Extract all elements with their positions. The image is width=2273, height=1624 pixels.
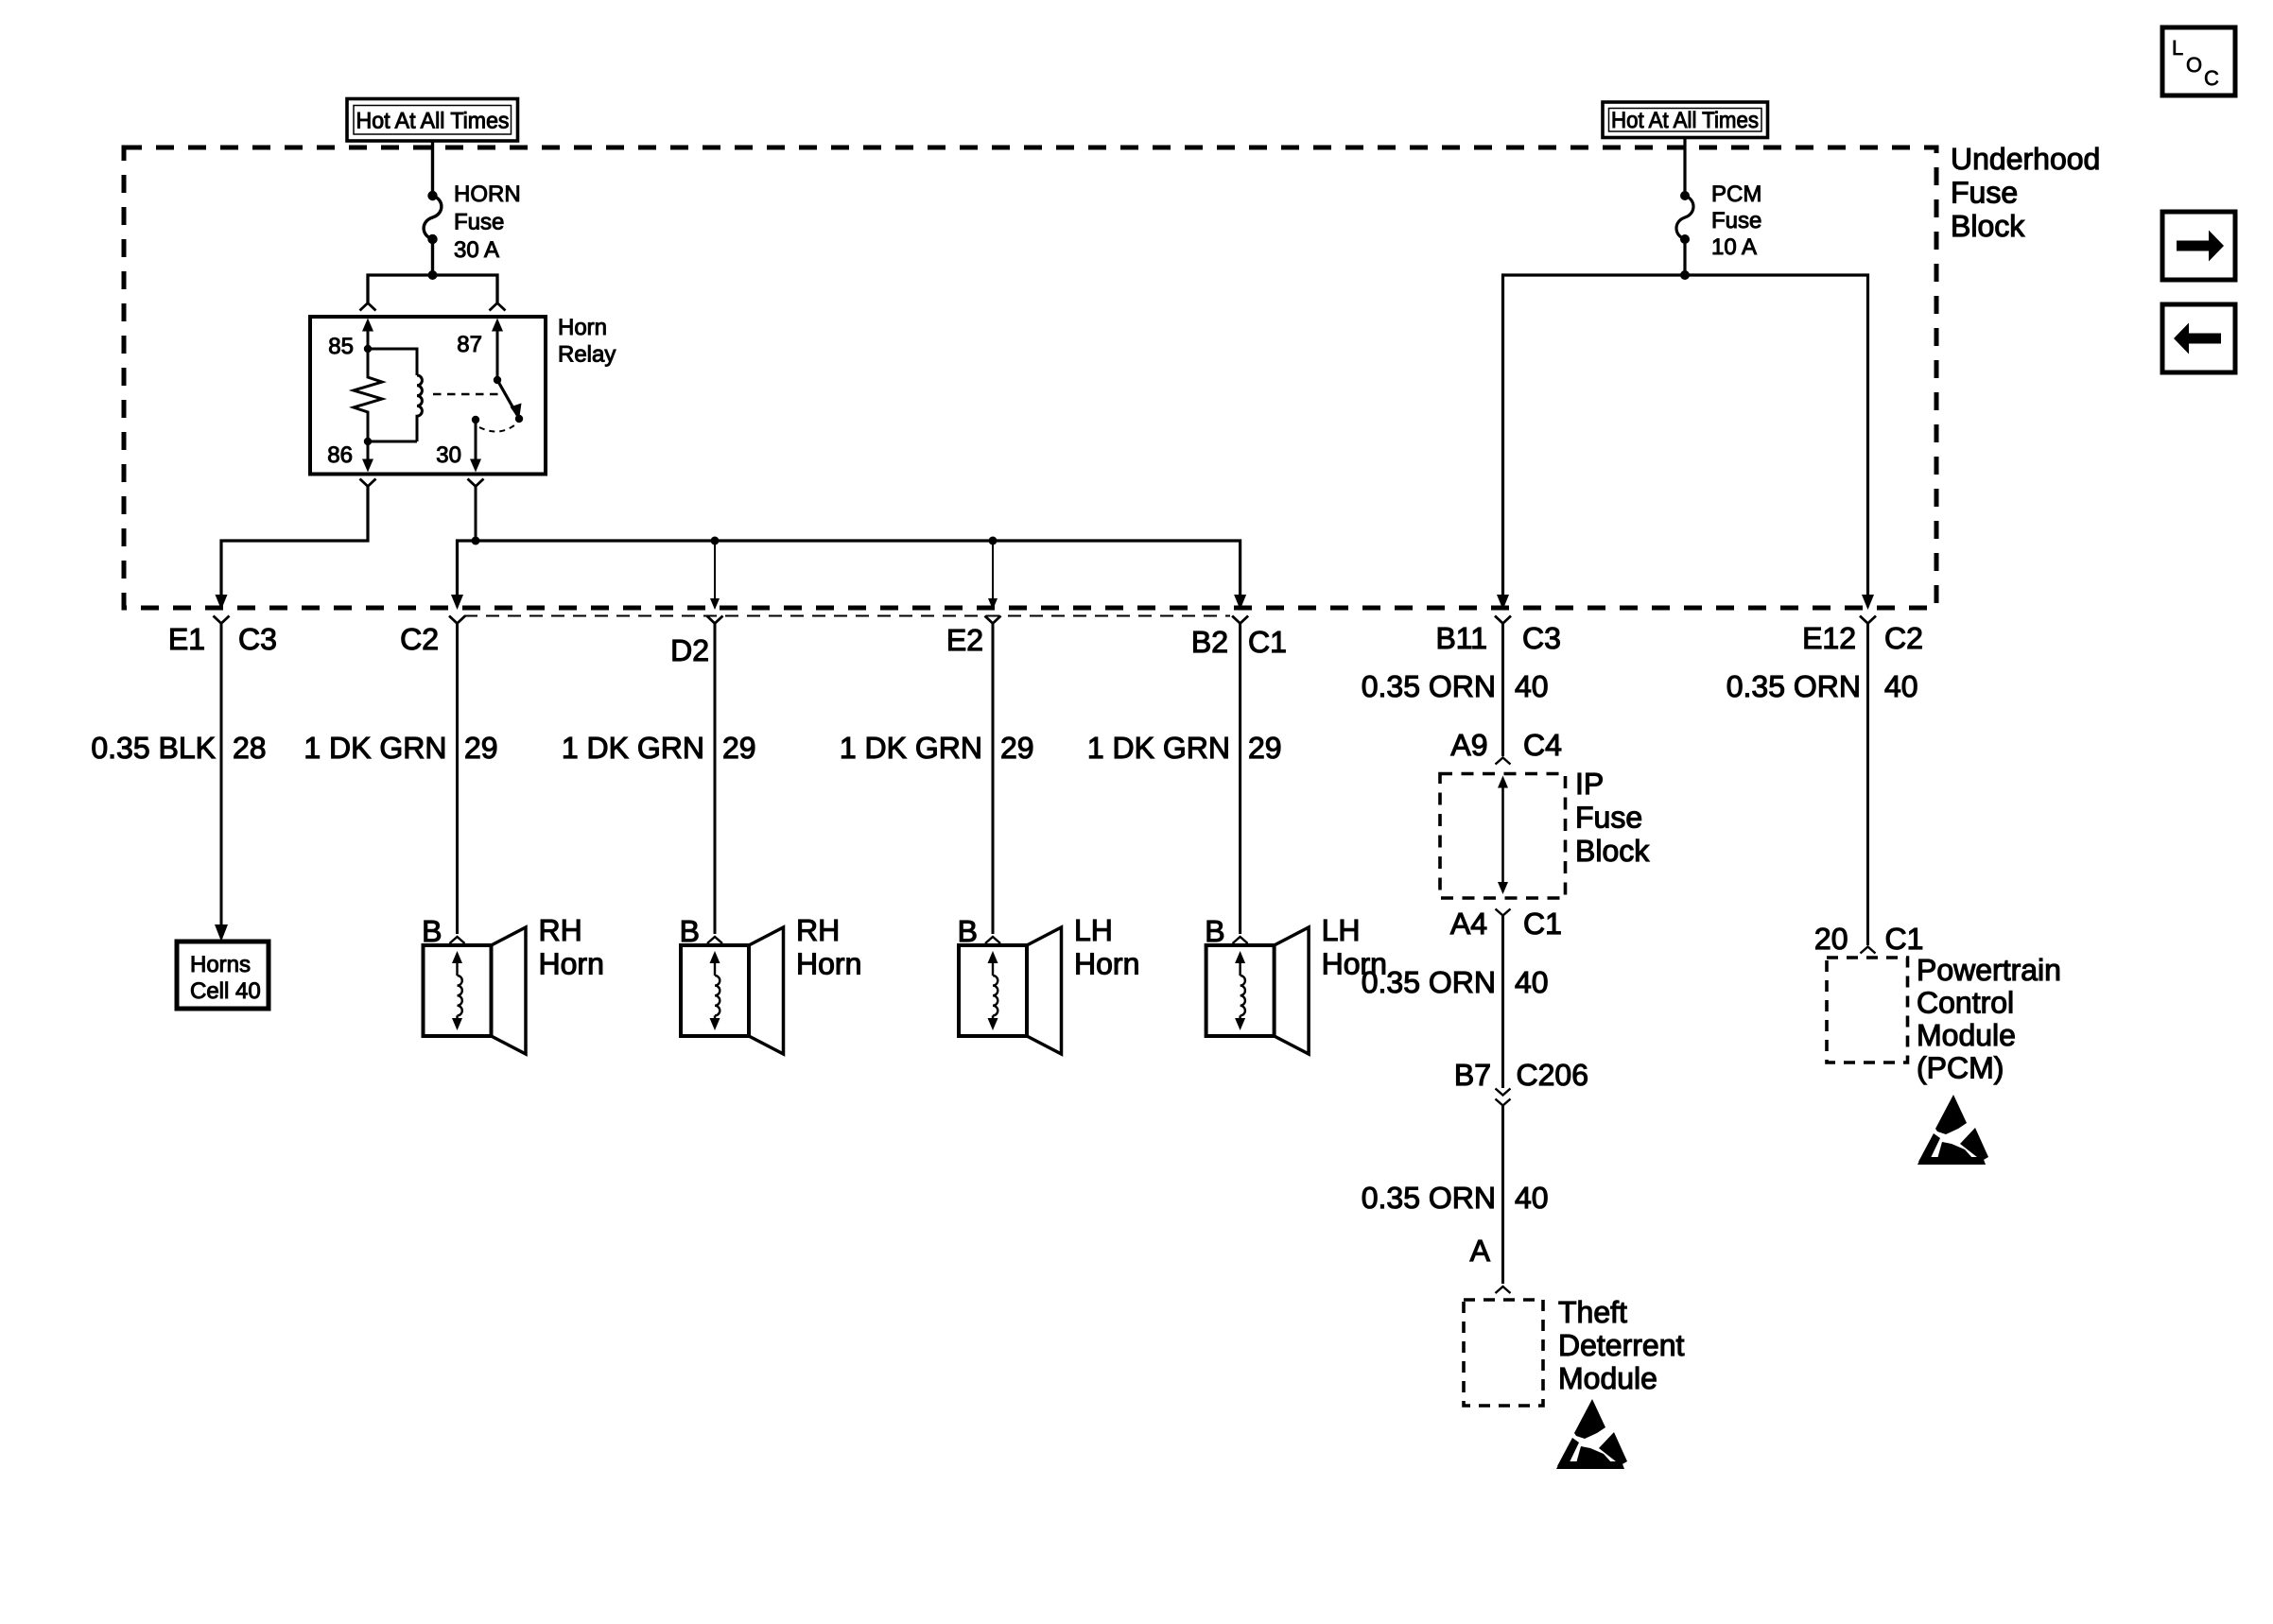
wire: right battery feed down to PCM fuse — [1683, 138, 1686, 197]
in-line connector C206 (chevron pair) — [1496, 1089, 1511, 1096]
node: pin 30 contact — [472, 416, 479, 423]
svg-text:PCM: PCM — [1711, 181, 1761, 207]
node: pin 85 junction — [364, 345, 372, 353]
svg-text:B: B — [422, 914, 442, 948]
arrow: into Horns Cell 40 — [215, 924, 228, 942]
svg-text:Horn: Horn — [796, 947, 861, 981]
svg-text:0.35 ORN: 0.35 ORN — [1362, 965, 1496, 999]
svg-text:86: 86 — [327, 442, 353, 468]
connector chevron at relay pin 85 — [360, 303, 376, 311]
resistor (relay coil suppression) — [354, 349, 382, 441]
svg-text:B: B — [1205, 914, 1224, 948]
relay pin 87 lead (arrow up) — [496, 329, 499, 380]
svg-text:Block: Block — [1951, 209, 2025, 243]
wire: pin 30 down to bus — [475, 487, 477, 542]
svg-text:Fuse: Fuse — [1951, 176, 2018, 210]
power label box: Hot At All Times (left) — [347, 99, 518, 142]
relay pin 85 lead (arrow up) — [367, 329, 370, 349]
svg-text:Theft: Theft — [1558, 1295, 1627, 1329]
svg-text:IP: IP — [1575, 767, 1604, 801]
svg-text:1 DK GRN: 1 DK GRN — [304, 731, 446, 765]
svg-text:Horn: Horn — [558, 315, 607, 340]
connector chevron E12/C2 — [1860, 616, 1876, 624]
node: bus tap D2 — [711, 537, 720, 545]
wire: coil branch top — [368, 349, 417, 375]
fuse PCM 10 A (element) — [1680, 191, 1690, 200]
svg-text:RH: RH — [539, 913, 582, 947]
wire through IP fuse block (double arrow) — [1501, 785, 1504, 885]
connector chevron B at RH Horn 2 — [707, 937, 722, 943]
svg-text:29: 29 — [1248, 731, 1282, 765]
svg-text:C2: C2 — [400, 622, 439, 656]
svg-text:40: 40 — [1884, 669, 1918, 703]
svg-text:Relay: Relay — [558, 342, 616, 368]
svg-text:LH: LH — [1322, 913, 1361, 947]
svg-text:HORN: HORN — [454, 181, 521, 207]
svg-text:E1: E1 — [168, 622, 205, 656]
svg-text:1 DK GRN: 1 DK GRN — [1087, 731, 1230, 765]
connector chevron E2 — [985, 616, 1001, 624]
wire: B11 to IP fuse block — [1501, 624, 1504, 757]
connector chevron at relay pin 87 — [490, 303, 506, 311]
node: branch junction below PCM fuse — [1680, 270, 1690, 280]
wire: E12 to PCM — [1866, 624, 1869, 946]
arrow: D2 wire at block boundary — [710, 598, 720, 610]
connector chevron A9/C4 — [1496, 758, 1511, 765]
wire: pin 86 to E1 drop — [221, 487, 368, 596]
svg-text:B7: B7 — [1454, 1058, 1491, 1092]
reference box: Horns Cell 40 — [177, 942, 269, 1009]
wire: C206 to theft deterrent module — [1501, 1106, 1504, 1285]
svg-text:B11: B11 — [1435, 621, 1487, 655]
connector chevron B at RH Horn 1 — [450, 937, 465, 943]
connector chevron B at LH Horn 2 — [1233, 937, 1248, 943]
wire: coil branch bottom — [368, 441, 417, 443]
arrow: B2 wire at block boundary — [1234, 595, 1246, 610]
svg-text:RH: RH — [796, 913, 840, 947]
dashed arc: switch throw — [479, 425, 514, 432]
node: bus tap E2 — [989, 537, 998, 545]
svg-text:Block: Block — [1575, 834, 1650, 868]
svg-text:C2: C2 — [1884, 621, 1923, 655]
svg-text:L: L — [2172, 36, 2183, 60]
Powertrain Control Module (dashed box) — [1827, 958, 1908, 1063]
svg-text:10 A: 10 A — [1711, 234, 1757, 260]
svg-text:Fuse: Fuse — [1711, 208, 1761, 233]
horn speaker RH Horn 1 — [424, 945, 492, 1036]
wire: D2 drop — [714, 541, 716, 599]
wire: feed to LH Horn 2 — [1239, 624, 1241, 935]
svg-text:C: C — [2204, 66, 2219, 90]
wire: PCM fuse to branch node — [1683, 239, 1686, 275]
connector chevron B2/C1 — [1232, 616, 1248, 624]
thin dashed connector line C1 — [464, 615, 1230, 617]
connector chevron A4/C1 — [1496, 909, 1511, 916]
svg-text:A4: A4 — [1450, 907, 1487, 941]
arrow: B11 wire at block boundary — [1497, 595, 1509, 610]
connector chevron B11/C3 — [1495, 616, 1511, 624]
svg-text:0.35 ORN: 0.35 ORN — [1726, 669, 1861, 703]
IP Fuse Block (dashed box) — [1440, 774, 1566, 899]
wire: A4 to C206 — [1501, 916, 1504, 1089]
svg-text:85: 85 — [328, 334, 354, 359]
svg-text:Underhood: Underhood — [1951, 142, 2100, 176]
underhood fuse block (dashed boundary) — [124, 147, 1936, 608]
svg-text:20: 20 — [1814, 922, 1848, 956]
wire: horn feed bus with C2 and B2 drops — [458, 541, 1241, 596]
relay pin 86 lead (arrow down) — [367, 441, 370, 459]
svg-text:Fuse: Fuse — [454, 210, 504, 235]
node: switch common (pin 87) — [494, 376, 501, 384]
connector chevron D2 — [707, 616, 723, 624]
svg-text:Horns: Horns — [190, 952, 251, 977]
svg-text:C1: C1 — [1885, 922, 1924, 956]
svg-text:Hot At All Times: Hot At All Times — [356, 109, 510, 134]
svg-text:Module: Module — [1917, 1018, 2016, 1052]
svg-text:O: O — [2186, 53, 2202, 77]
connector chevron below relay pin 86 — [360, 479, 376, 487]
horn speaker RH Horn 2 — [681, 945, 749, 1036]
svg-text:B2: B2 — [1191, 625, 1228, 659]
svg-text:0.35 BLK: 0.35 BLK — [91, 731, 216, 765]
relay pin 30 lead (arrow down) — [475, 420, 477, 459]
svg-text:C3: C3 — [238, 622, 277, 656]
connector chevron E1/C3 — [214, 616, 230, 624]
node: branch junction below HORN fuse — [428, 270, 438, 280]
svg-text:Deterrent: Deterrent — [1558, 1328, 1685, 1362]
svg-text:B: B — [680, 914, 700, 948]
svg-text:C3: C3 — [1522, 621, 1561, 655]
power label box: Hot At All Times (right) — [1603, 102, 1768, 138]
svg-text:Horn: Horn — [539, 947, 604, 981]
connector chevron 20/C1 (PCM) — [1861, 947, 1876, 954]
icon box: arrow right (next page) — [2162, 212, 2235, 280]
connector chevron B at LH Horn 1 — [985, 937, 1000, 943]
svg-text:A: A — [1470, 1234, 1491, 1268]
svg-text:E2: E2 — [946, 623, 983, 657]
svg-text:0.35 ORN: 0.35 ORN — [1362, 669, 1496, 703]
arrow: E2 wire at block boundary — [988, 598, 998, 610]
svg-text:1 DK GRN: 1 DK GRN — [562, 731, 704, 765]
wire: branch bar to B11 and E12 drops — [1503, 275, 1868, 596]
svg-text:28: 28 — [233, 731, 267, 765]
svg-text:29: 29 — [722, 731, 756, 765]
wire: branch bar to relay pins 85 and 87 — [368, 275, 497, 302]
svg-text:C1: C1 — [1523, 907, 1562, 941]
ESD-sensitive symbol (PCM) — [1935, 1095, 1967, 1134]
wire: E1 ground to Horns cell — [220, 624, 223, 925]
arrow: E1 wire at block boundary — [216, 595, 228, 610]
svg-text:40: 40 — [1515, 669, 1549, 703]
Theft Deterrent Module (dashed box) — [1464, 1300, 1543, 1406]
svg-text:B: B — [958, 914, 978, 948]
svg-text:Control: Control — [1917, 986, 2014, 1020]
svg-text:A9: A9 — [1450, 728, 1487, 762]
svg-text:Cell 40: Cell 40 — [190, 978, 261, 1004]
wire: feed to LH Horn 1 — [992, 624, 995, 935]
svg-text:LH: LH — [1074, 913, 1113, 947]
svg-text:Fuse: Fuse — [1575, 801, 1642, 835]
svg-text:Module: Module — [1558, 1361, 1657, 1395]
svg-text:30: 30 — [436, 442, 461, 468]
icon box: arrow left (previous page) — [2162, 304, 2235, 372]
wire: left battery feed down to HORN fuse — [431, 141, 434, 196]
svg-text:(PCM): (PCM) — [1917, 1051, 2004, 1085]
fuse HORN 30 A (element) — [427, 191, 437, 200]
wire: feed to RH Horn 2 — [714, 624, 717, 935]
connector chevron C2 — [449, 616, 465, 624]
svg-text:29: 29 — [1000, 731, 1034, 765]
svg-text:Powertrain: Powertrain — [1917, 953, 2061, 987]
svg-text:40: 40 — [1515, 965, 1549, 999]
ESD-sensitive symbol (theft deterrent module) — [1574, 1399, 1605, 1439]
svg-text:1 DK GRN: 1 DK GRN — [840, 731, 982, 765]
node: bus junction at pin 30 — [472, 537, 480, 545]
svg-text:C4: C4 — [1523, 728, 1562, 762]
inductor: relay coil — [417, 375, 422, 441]
relay box: Horn Relay — [310, 317, 546, 475]
svg-text:E12: E12 — [1802, 621, 1856, 655]
svg-text:40: 40 — [1515, 1181, 1549, 1215]
svg-text:D2: D2 — [670, 633, 709, 667]
svg-text:0.35 ORN: 0.35 ORN — [1362, 1181, 1496, 1215]
svg-text:30 A: 30 A — [454, 237, 499, 263]
wire: feed to RH Horn 1 — [456, 624, 459, 935]
svg-text:Horn: Horn — [1074, 947, 1139, 981]
wire: E2 drop — [992, 541, 994, 599]
connector chevron below relay pin 30 — [468, 479, 484, 487]
connector chevron A (theft module) — [1496, 1287, 1511, 1293]
svg-text:87: 87 — [457, 332, 482, 357]
svg-text:Hot At All Times: Hot At All Times — [1611, 108, 1759, 133]
arrow: C2 wire at block boundary — [451, 595, 463, 610]
dashed link: coil to switch — [433, 393, 504, 395]
wire: HORN fuse to branch node — [431, 239, 434, 275]
svg-text:C206: C206 — [1517, 1058, 1589, 1092]
node: pin 86 junction — [364, 438, 372, 445]
relay switch arm — [497, 380, 517, 415]
arrow: E12 wire at block boundary — [1862, 595, 1874, 610]
icon box: LOC reference — [2162, 27, 2235, 95]
horn speaker LH Horn 2 — [1206, 945, 1275, 1036]
horn speaker LH Horn 1 — [959, 945, 1027, 1036]
svg-text:C1: C1 — [1248, 625, 1287, 659]
svg-text:29: 29 — [464, 731, 498, 765]
